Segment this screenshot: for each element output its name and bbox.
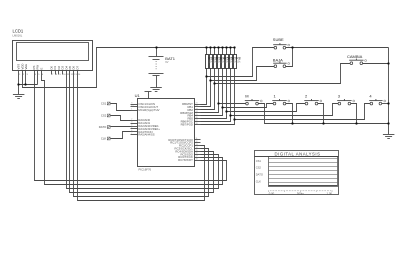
svg-text:10: 10 — [131, 105, 133, 107]
svg-text:LM016L: LM016L — [13, 34, 23, 38]
svg-text:5: 5 — [131, 127, 132, 129]
svg-text:CS2: CS2 — [256, 166, 262, 170]
svg-text:25: 25 — [196, 114, 198, 116]
svg-text:VEE: VEE — [24, 64, 28, 70]
svg-text:24: 24 — [196, 111, 198, 113]
svg-text:21: 21 — [196, 103, 198, 105]
svg-text:3: 3 — [131, 122, 132, 124]
svg-text:15: 15 — [196, 150, 198, 152]
svg-text:26: 26 — [196, 117, 198, 119]
svg-text:0.00: 0.00 — [269, 191, 275, 195]
svg-text:SUBE: SUBE — [273, 37, 284, 42]
svg-text:22: 22 — [196, 105, 198, 107]
svg-text:CLK: CLK — [101, 137, 107, 141]
svg-text:18: 18 — [196, 159, 198, 161]
svg-text:E: E — [39, 68, 43, 70]
svg-text:CS2: CS2 — [101, 114, 107, 118]
svg-text:6: 6 — [131, 130, 132, 132]
svg-text:9: 9 — [131, 103, 132, 105]
svg-text:9V: 9V — [165, 60, 168, 64]
svg-text:4: 4 — [131, 124, 132, 126]
svg-text:CAMBIA: CAMBIA — [347, 54, 363, 59]
svg-text:17: 17 — [196, 156, 198, 158]
svg-text:CLK: CLK — [256, 180, 261, 184]
svg-text:DIGITAL ANALYSIS: DIGITAL ANALYSIS — [275, 151, 321, 156]
svg-text:PIC16F76: PIC16F76 — [139, 167, 152, 171]
svg-text:28: 28 — [196, 123, 198, 125]
svg-text:1.00: 1.00 — [327, 191, 333, 195]
svg-text:CS1: CS1 — [101, 102, 107, 106]
svg-text:MCLR(Vpp)/THV: MCLR(Vpp)/THV — [138, 108, 159, 112]
svg-text:12: 12 — [196, 141, 198, 143]
svg-text:11: 11 — [196, 138, 198, 140]
svg-text:16: 16 — [196, 153, 198, 155]
svg-text:13: 13 — [196, 144, 198, 146]
svg-text:7: 7 — [131, 133, 132, 135]
svg-text:14: 14 — [196, 147, 198, 149]
svg-text:RB7/PGD: RB7/PGD — [181, 122, 193, 126]
svg-text:M: M — [245, 93, 248, 98]
svg-text:DATO: DATO — [256, 173, 263, 177]
svg-text:27: 27 — [196, 120, 198, 122]
svg-text:500m: 500m — [297, 191, 305, 195]
svg-text:23: 23 — [196, 108, 198, 110]
svg-text:U1: U1 — [135, 93, 141, 98]
svg-text:D7: D7 — [75, 65, 79, 69]
svg-text:DATO: DATO — [99, 125, 107, 129]
svg-text:2: 2 — [131, 119, 132, 121]
svg-text:LCD1: LCD1 — [13, 29, 24, 34]
svg-text:CS1: CS1 — [256, 159, 262, 163]
svg-text:1: 1 — [131, 108, 132, 110]
svg-text:RC7/RX/DT: RC7/RX/DT — [178, 158, 193, 162]
svg-text:RA5/AN4/SS: RA5/AN4/SS — [138, 133, 154, 137]
svg-text:BAJA: BAJA — [273, 58, 283, 63]
